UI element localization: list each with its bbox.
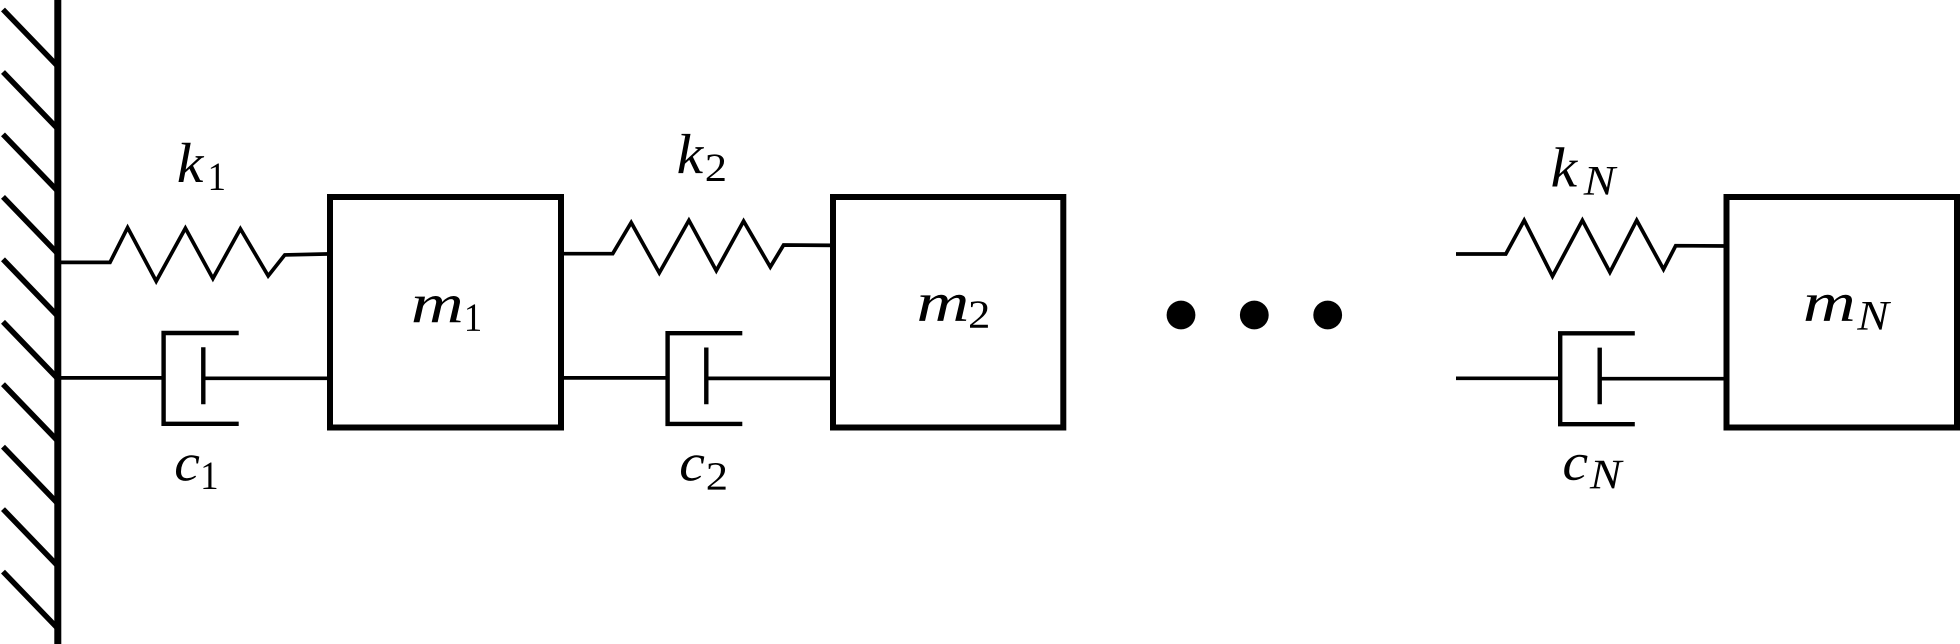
damper c2 piston plate xyxy=(704,348,708,405)
label c2 xyxy=(681,455,704,481)
damper c2: wire mass m1 to cylinder xyxy=(560,376,668,380)
damper c1 cylinder (open cup) xyxy=(164,333,239,424)
label cN xyxy=(1564,455,1587,481)
damper c1 piston plate xyxy=(201,347,205,404)
damper cN: wire piston to mass mN xyxy=(1600,377,1728,381)
label k1 xyxy=(179,143,205,182)
label c1 xyxy=(176,455,199,481)
ellipsis dot 2 xyxy=(1240,301,1269,330)
label kN xyxy=(1552,147,1578,186)
label mN xyxy=(1805,295,1852,321)
spring k1 (wall to mass m1, includes connecting wire segments) xyxy=(57,228,331,282)
label k2 xyxy=(678,134,704,173)
ellipsis dot 3 xyxy=(1313,301,1342,330)
wall (fixed support line) xyxy=(54,0,61,644)
damper c1: wire piston to mass m1 xyxy=(203,376,331,380)
damper cN: wire free end to cylinder xyxy=(1456,376,1560,380)
damper cN piston plate xyxy=(1597,348,1601,405)
mass m1 box xyxy=(330,197,561,428)
spring kN (free end to mass mN) xyxy=(1456,220,1728,276)
spring k2 (mass m1 to mass m2) xyxy=(560,220,834,273)
damper c2 cylinder (open cup) xyxy=(668,333,743,424)
damper c2: wire piston to mass m2 xyxy=(706,377,834,381)
damper c1: wire wall to cylinder xyxy=(57,376,164,380)
wall hatching xyxy=(3,10,57,628)
mass mN box (right edge clipped by image boundary) xyxy=(1727,197,1958,428)
label m1 xyxy=(413,296,460,322)
label m2 xyxy=(919,295,966,321)
damper cN cylinder (open cup) xyxy=(1560,333,1635,424)
mass m2 box xyxy=(833,197,1063,428)
ellipsis dot 1 xyxy=(1167,301,1196,330)
